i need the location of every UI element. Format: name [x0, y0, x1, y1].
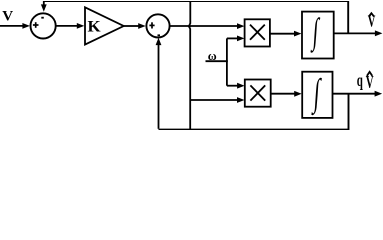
multiplier M2 (box): [245, 80, 271, 107]
integrator I1 (box): [302, 12, 334, 59]
wire: I1 output to v' arrow: [334, 30, 383, 36]
S2 minus sign: [158, 34, 161, 36]
wire: S1 to gain K: [56, 23, 85, 29]
multiplier M1 (box): [245, 19, 270, 46]
S1 minus sign: [41, 17, 44, 19]
svg-text:q: q: [357, 71, 364, 90]
summing junction S2: [146, 14, 169, 37]
integrator I2 (box): [302, 72, 332, 118]
wire: qv' feedback into S2 bottom: [156, 38, 162, 129]
wire: v' feedback top loop: [44, 1, 348, 33]
svg-text:V: V: [366, 74, 374, 93]
svg-text:K: K: [87, 17, 100, 35]
wire: M1 to integrator I1: [270, 31, 302, 37]
gain K value label: [87, 17, 100, 35]
S1 plus sign: [33, 22, 39, 28]
wire: S2 output to multiplier M1: [170, 23, 245, 29]
node V input label: [2, 9, 13, 25]
wire: M2 to integrator I2: [271, 91, 302, 97]
wire: ω to M2 upper input: [227, 83, 245, 89]
summing junction S1: [30, 13, 55, 38]
S2 plus sign: [149, 22, 154, 28]
M1 × symbol: [250, 25, 265, 40]
wire: ω branch vertical: [226, 38, 228, 85]
svg-text:V: V: [368, 12, 376, 30]
wire: I2 output to qv' arrow: [333, 91, 383, 97]
wire: K to summer S2: [124, 23, 146, 29]
wire: bus to multiplier M2 lower input: [190, 97, 244, 103]
wire: ω input stub: [206, 60, 228, 62]
svg-text:V: V: [2, 9, 13, 25]
wire: ω to M1 lower input: [227, 36, 245, 42]
wire: V input to summer S1: [0, 23, 30, 29]
node qv' output label (q V hat): [357, 71, 374, 93]
wire: v' feedback into S1 top: [41, 1, 47, 12]
junction blob where bus crosses S2 output wire: [188, 25, 191, 28]
node v' output label (V hat): [368, 12, 376, 30]
gain block K (triangle): [85, 7, 124, 44]
I1 ∫ symbol: [310, 12, 321, 53]
M2 × symbol: [250, 85, 265, 100]
wire: v' feedback bus (vertical at x=190.3): [189, 1, 190, 130]
I2 ∫ symbol: [311, 71, 323, 117]
wire: qv' feedback bottom loop: [159, 94, 349, 130]
